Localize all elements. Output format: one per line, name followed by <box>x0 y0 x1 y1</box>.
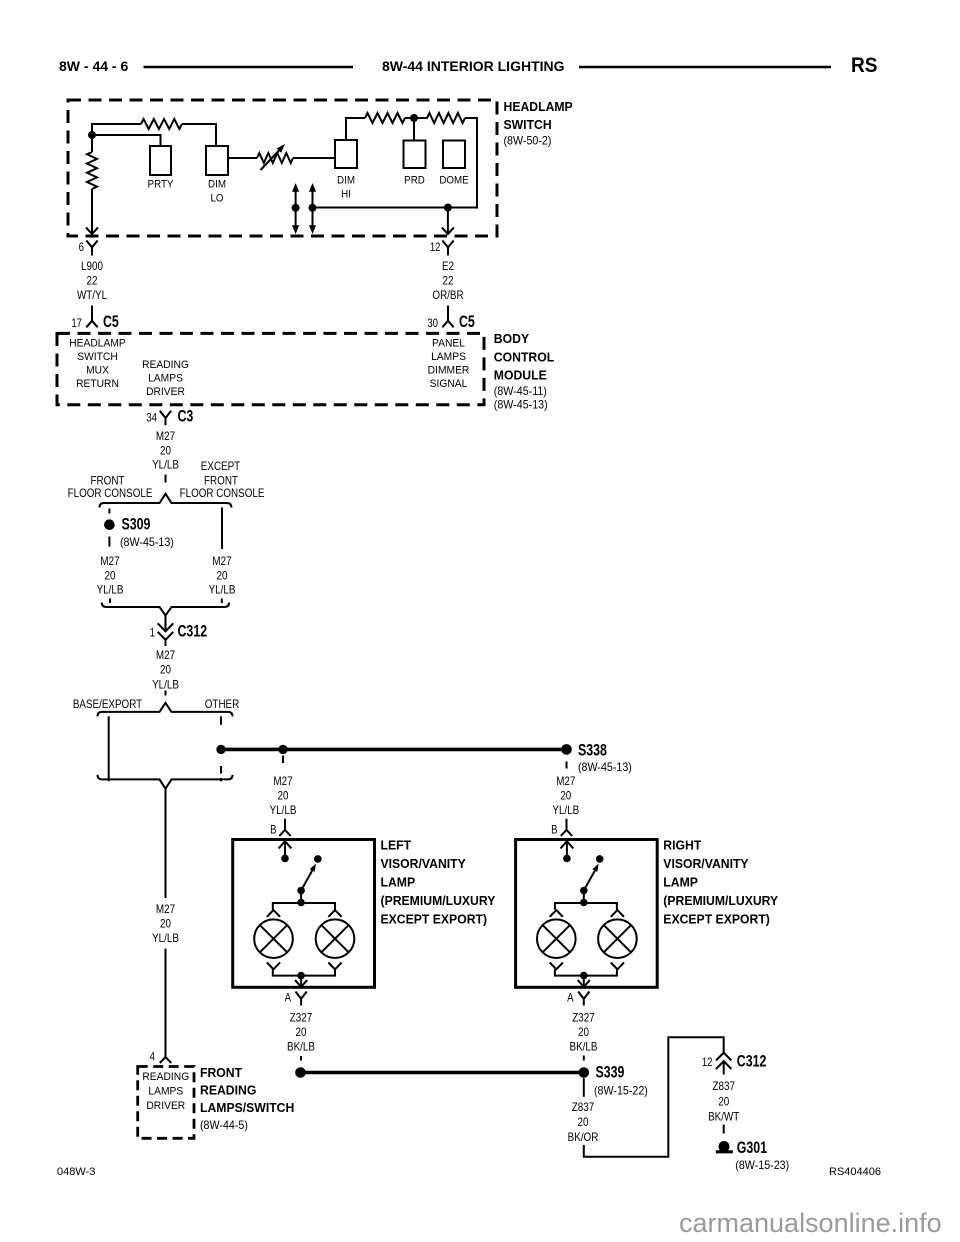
svg-text:C312: C312 <box>178 623 208 641</box>
svg-text:C5: C5 <box>459 313 475 331</box>
wire Z837 20 BK/OR <box>568 1101 599 1144</box>
left lamp switch arm arrow <box>301 864 316 891</box>
left lamp bulb 1 terminal chevron top <box>267 910 280 917</box>
svg-text:(8W-45-13): (8W-45-13) <box>120 537 174 549</box>
svg-text:YL/LB: YL/LB <box>552 804 579 817</box>
wire: R3 right side down to wiper rail <box>313 118 478 208</box>
wire: rheostat to DIM HI <box>293 157 335 159</box>
wire M27 left branch <box>97 555 124 596</box>
wire stub left to merge <box>109 599 111 604</box>
body control module dashed box <box>57 333 484 404</box>
svg-text:LAMP: LAMP <box>663 875 698 889</box>
left lamp switch pole node <box>281 855 289 863</box>
left lamp switch arm node <box>297 887 305 895</box>
svg-text:BK/WT: BK/WT <box>708 1111 740 1124</box>
node: left visor lamp tap <box>278 745 287 754</box>
ground G301 <box>716 1139 767 1157</box>
left lamp bulb 1 terminal chevron bottom <box>267 963 280 970</box>
svg-text:YL/LB: YL/LB <box>152 459 179 472</box>
reading lamps driver dashed box <box>138 1067 194 1139</box>
wire Z327 20 BK/LB right <box>570 1012 598 1054</box>
footer drawing number <box>829 1166 881 1178</box>
svg-text:(8W-45-13): (8W-45-13) <box>494 399 548 411</box>
svg-text:(8W-45-11): (8W-45-11) <box>494 386 547 398</box>
svg-text:SIGNAL: SIGNAL <box>430 379 468 390</box>
svg-text:20: 20 <box>560 790 571 803</box>
svg-text:M27: M27 <box>156 649 175 662</box>
svg-text:FRONT: FRONT <box>204 475 238 488</box>
svg-text:6: 6 <box>79 241 84 254</box>
left lamp bulb 1 <box>254 919 293 958</box>
svg-text:WT/YL: WT/YL <box>77 289 107 302</box>
svg-text:LO: LO <box>210 193 223 205</box>
connector pin 12 of headlamp switch <box>442 241 453 256</box>
svg-text:A: A <box>285 992 292 1005</box>
connector pin A right lamp <box>567 992 589 1006</box>
right lamp exit arrow to pin A <box>578 976 590 987</box>
svg-text:20: 20 <box>578 1026 589 1039</box>
svg-text:22: 22 <box>87 275 98 288</box>
page header left <box>59 58 128 74</box>
wire: feed to visor lamps <box>221 748 567 752</box>
left visor/vanity lamp box <box>233 840 375 988</box>
watermark <box>679 1208 942 1238</box>
svg-text:BK/LB: BK/LB <box>570 1041 598 1054</box>
BCM pin name: reading lamps driver <box>142 360 189 398</box>
right visor/vanity lamp box <box>516 840 658 988</box>
svg-text:C312: C312 <box>737 1053 767 1071</box>
left lamp switch fixed contact node <box>314 855 322 863</box>
connector pin B right lamp <box>551 819 572 837</box>
wire stub below S338 <box>566 762 568 769</box>
node: junction to pin 12 <box>444 204 452 212</box>
right lamp bulb 1 <box>537 919 576 958</box>
svg-text:4: 4 <box>150 1051 155 1064</box>
left lamp entry arrow from pin B <box>279 841 292 858</box>
S309 reference <box>120 537 174 549</box>
headlamp switch label <box>504 100 573 148</box>
right lamp bottom rail <box>555 969 617 975</box>
wire: junction down to PRD contact <box>413 118 415 141</box>
node on right wiper arrow <box>309 204 317 212</box>
left lamp rail node <box>297 891 305 907</box>
wire: junction down to vertical resistor R4 <box>91 135 93 152</box>
svg-text:S339: S339 <box>596 1064 625 1082</box>
wire stub to split <box>165 475 167 483</box>
branch split brace <box>100 494 232 508</box>
svg-text:(8W-44-5): (8W-44-5) <box>200 1120 248 1132</box>
branch merge brace <box>102 603 229 616</box>
wire stub below S309 <box>108 537 110 547</box>
svg-text:8W-44 INTERIOR LIGHTING: 8W-44 INTERIOR LIGHTING <box>382 58 565 74</box>
svg-text:12: 12 <box>430 241 441 254</box>
svg-text:HI: HI <box>341 189 351 201</box>
svg-text:20: 20 <box>160 445 171 458</box>
svg-text:17: 17 <box>71 317 82 330</box>
svg-text:M27: M27 <box>556 775 575 788</box>
svg-text:S309: S309 <box>122 516 151 534</box>
headlamp switch dashed box <box>68 100 497 236</box>
svg-text:RETURN: RETURN <box>76 379 119 390</box>
wire stub below tap <box>282 756 284 764</box>
svg-text:READING: READING <box>142 360 189 371</box>
left lamp bulb 2 terminal chevron top <box>328 910 341 917</box>
wire M27 on long vertical <box>152 903 179 945</box>
svg-text:20: 20 <box>160 918 171 931</box>
svg-text:YL/LB: YL/LB <box>152 932 179 945</box>
wire: junction to pin 12 arrow <box>442 208 454 235</box>
svg-text:20: 20 <box>296 1026 307 1039</box>
svg-text:(PREMIUM/LUXURY: (PREMIUM/LUXURY <box>663 894 778 908</box>
svg-text:30: 30 <box>427 317 438 330</box>
right lamp switch arm arrow <box>584 864 599 891</box>
S339 reference <box>594 1085 648 1097</box>
svg-text:YL/LB: YL/LB <box>209 584 236 597</box>
contact DIM LO <box>206 146 228 205</box>
svg-text:M27: M27 <box>156 430 175 443</box>
svg-text:YL/LB: YL/LB <box>97 584 124 597</box>
connector pin B left lamp <box>270 819 291 837</box>
wire Z837 20 BK/WT <box>708 1080 740 1123</box>
page header right <box>851 54 878 77</box>
svg-text:20: 20 <box>578 1116 589 1129</box>
node: junction above PRD <box>410 114 418 122</box>
wire: visor lamp ground bus <box>301 1071 584 1075</box>
svg-text:(8W-15-22): (8W-15-22) <box>594 1085 648 1097</box>
splice S309 <box>104 516 150 534</box>
svg-text:22: 22 <box>443 275 454 288</box>
page header title <box>382 58 565 74</box>
svg-text:A: A <box>567 992 574 1005</box>
svg-text:MUX: MUX <box>86 365 109 376</box>
S338 reference <box>578 762 632 774</box>
wire stub above ground <box>723 1125 725 1134</box>
header rule left <box>144 66 354 68</box>
right lamp entry arrow from pin B <box>561 841 574 858</box>
wire: DIM LO to rheostat <box>228 157 257 159</box>
branch label other <box>205 698 240 711</box>
svg-text:048W-3: 048W-3 <box>57 1166 95 1178</box>
G301 reference <box>735 1160 789 1172</box>
wire Z327 20 BK/LB left <box>287 1012 315 1054</box>
svg-text:HEADLAMP: HEADLAMP <box>504 100 573 114</box>
splice S338 <box>561 742 607 760</box>
wire: DIM HI up to resistor R2 <box>346 118 365 140</box>
svg-text:VISOR/VANITY: VISOR/VANITY <box>663 857 749 871</box>
svg-text:OR/BR: OR/BR <box>432 289 463 302</box>
connector C312 pin 12 <box>702 1053 767 1075</box>
svg-text:M27: M27 <box>212 555 231 568</box>
svg-text:LAMPS/SWITCH: LAMPS/SWITCH <box>200 1101 294 1115</box>
svg-text:VISOR/VANITY: VISOR/VANITY <box>381 857 467 871</box>
svg-text:L900: L900 <box>81 260 103 273</box>
left lamp bulb 2 terminal chevron bottom <box>328 963 341 970</box>
right lamp switch pole node <box>563 855 571 863</box>
connector pin 6 of headlamp switch <box>86 241 97 256</box>
svg-text:BASE/EXPORT: BASE/EXPORT <box>73 698 143 711</box>
wire M27 below C312 <box>152 649 179 691</box>
right lamp switch arm node <box>580 887 588 895</box>
svg-text:M27: M27 <box>273 775 292 788</box>
resistor: rheostat zigzag <box>257 153 293 163</box>
wire M27 right branch <box>209 555 236 596</box>
svg-text:BK/OR: BK/OR <box>568 1131 599 1144</box>
svg-text:B: B <box>551 824 557 837</box>
branch label front floor console <box>68 475 153 500</box>
svg-text:Z837: Z837 <box>572 1101 594 1114</box>
right lamp bulb 1 terminal chevron bottom <box>550 963 563 970</box>
wire E2 22 OR/BR <box>432 260 463 302</box>
svg-text:LAMPS: LAMPS <box>148 1086 183 1097</box>
svg-text:G301: G301 <box>737 1139 767 1157</box>
svg-text:DRIVER: DRIVER <box>146 1101 185 1112</box>
wire M27 to left lamp <box>270 775 297 817</box>
wire: R4 down to pin 6 arrow <box>86 189 98 234</box>
branch label except front floor console <box>180 460 265 500</box>
svg-text:Z837: Z837 <box>712 1080 734 1093</box>
right lamp switch fixed contact node <box>596 855 604 863</box>
right lamp bulb 2 terminal chevron top <box>611 910 624 917</box>
wire: R1 to DIM LO contact <box>182 124 216 146</box>
wire M27 20 YL/LB below C3 <box>152 430 179 471</box>
wire M27 to right lamp <box>552 775 579 817</box>
wire: junction up to resistor R1 <box>92 124 141 135</box>
svg-text:CONTROL: CONTROL <box>494 350 555 364</box>
right lamp bulb 2 <box>598 919 637 958</box>
svg-text:20: 20 <box>105 570 116 583</box>
svg-text:SWITCH: SWITCH <box>504 118 552 132</box>
resistor R3 <box>414 113 465 123</box>
wire right branch <box>221 508 223 550</box>
connector pin A left lamp <box>285 992 307 1006</box>
svg-text:RS: RS <box>851 54 878 77</box>
wire stub right to merge <box>221 599 223 604</box>
svg-text:FRONT: FRONT <box>91 475 125 488</box>
svg-text:(8W-15-23): (8W-15-23) <box>735 1160 789 1172</box>
node on other branch <box>216 745 225 754</box>
wire base/export branch <box>108 716 110 781</box>
connector pin 4 reading lamps driver <box>150 1051 172 1064</box>
svg-text:1: 1 <box>150 627 155 640</box>
svg-text:20: 20 <box>160 664 171 677</box>
svg-text:READING: READING <box>200 1083 257 1097</box>
right lamp bulb 2 terminal chevron bottom <box>611 963 624 970</box>
wire: S339 down stem <box>583 1078 585 1097</box>
wiper double arrow left <box>292 183 299 234</box>
contact DIM HI <box>335 140 357 201</box>
splice S339 <box>579 1064 625 1082</box>
node: left lamp return junction <box>295 1067 306 1078</box>
body control module label <box>494 332 555 412</box>
left lamp bottom rail <box>273 969 335 975</box>
svg-text:B: B <box>270 824 276 837</box>
svg-text:12: 12 <box>702 1056 713 1069</box>
svg-text:8W - 44 - 6: 8W - 44 - 6 <box>59 58 128 74</box>
svg-text:Z327: Z327 <box>572 1012 594 1025</box>
right lamp bulb 1 terminal chevron top <box>550 910 563 917</box>
wire stub left branch <box>108 509 110 514</box>
reading lamps driver pin name <box>142 1072 189 1112</box>
left visor/vanity lamp label <box>381 838 496 926</box>
second split brace <box>98 703 233 717</box>
wire: reading lamps driver feed (long vertical) <box>165 789 167 898</box>
wiper double arrow right <box>309 183 316 234</box>
rheostat wiper arrow <box>261 144 286 170</box>
wire: L900 stem to C5 <box>91 306 93 321</box>
resistor R1 (PRTY feed) <box>141 119 182 129</box>
footer sheet number <box>57 1166 95 1178</box>
connector C5 pin 30 <box>427 313 475 331</box>
wire: E2 stem to C5 <box>447 306 449 321</box>
svg-text:DIM: DIM <box>337 175 355 187</box>
svg-text:FRONT: FRONT <box>200 1066 242 1080</box>
wire stub right Z327 <box>583 1056 585 1061</box>
svg-text:MODULE: MODULE <box>494 368 547 382</box>
pin 6 label <box>79 241 84 254</box>
branch label base/export <box>73 698 143 711</box>
connector C3 pin 34 <box>146 408 193 426</box>
svg-text:OTHER: OTHER <box>205 698 240 711</box>
svg-text:BODY: BODY <box>494 332 530 346</box>
svg-text:Z327: Z327 <box>290 1012 312 1025</box>
second merge brace <box>98 775 233 789</box>
wire: ground run to C312 <box>584 1037 724 1157</box>
wire stub other branch <box>220 716 222 724</box>
svg-text:DRIVER: DRIVER <box>146 387 185 398</box>
svg-text:20: 20 <box>278 790 289 803</box>
wire: long vertical lower part <box>165 949 167 1058</box>
svg-text:DIM: DIM <box>208 179 226 191</box>
svg-text:DIMMER: DIMMER <box>428 365 470 376</box>
svg-text:M27: M27 <box>156 903 175 916</box>
front reading lamps/switch label <box>200 1066 294 1132</box>
svg-text:E2: E2 <box>442 260 454 273</box>
svg-text:PRTY: PRTY <box>148 179 174 191</box>
connector C5 pin 17 <box>71 313 119 331</box>
wire: R2 to junction <box>405 117 414 119</box>
svg-text:READING: READING <box>142 1072 189 1083</box>
svg-text:carmanualsonline.info: carmanualsonline.info <box>679 1208 942 1238</box>
wire stub to second split <box>165 691 167 696</box>
contact PRTY <box>148 146 174 191</box>
pin 12 label <box>430 241 441 254</box>
svg-text:YL/LB: YL/LB <box>270 804 297 817</box>
svg-text:M27: M27 <box>100 555 119 568</box>
node on left wiper arrow <box>292 204 300 212</box>
svg-text:34: 34 <box>146 412 157 425</box>
svg-text:BK/LB: BK/LB <box>287 1041 315 1054</box>
left lamp bulb 2 <box>316 919 355 958</box>
svg-text:SWITCH: SWITCH <box>77 352 118 363</box>
contact DOME <box>439 141 468 187</box>
left lamp bottom node <box>297 972 305 980</box>
header rule right <box>579 66 831 68</box>
svg-text:YL/LB: YL/LB <box>152 679 179 692</box>
wire: junction to PRTY contact <box>92 135 161 146</box>
wire stub left Z327 <box>300 1056 302 1061</box>
svg-text:PRD: PRD <box>404 175 425 187</box>
svg-text:LEFT: LEFT <box>381 838 412 852</box>
svg-text:EXCEPT EXPORT): EXCEPT EXPORT) <box>381 912 488 926</box>
wire L900 22 WT/YL <box>77 260 107 302</box>
svg-text:EXCEPT: EXCEPT <box>201 460 241 473</box>
left lamp exit arrow to pin A <box>295 976 307 987</box>
svg-text:20: 20 <box>718 1096 729 1109</box>
BCM pin name: panel lamps dimmer signal <box>428 338 470 390</box>
svg-text:C5: C5 <box>103 313 119 331</box>
svg-text:(8W-50-2): (8W-50-2) <box>504 135 552 147</box>
contact PRD <box>404 141 426 187</box>
svg-text:LAMPS: LAMPS <box>148 373 183 384</box>
wire stubs below other node <box>220 766 222 781</box>
svg-text:EXCEPT EXPORT): EXCEPT EXPORT) <box>663 912 770 926</box>
svg-text:S338: S338 <box>578 742 607 760</box>
svg-text:C3: C3 <box>178 408 194 426</box>
svg-text:LAMP: LAMP <box>381 875 416 889</box>
resistor R4 (vertical) <box>87 152 97 189</box>
svg-text:HEADLAMP: HEADLAMP <box>69 338 126 349</box>
node: headlamp switch internal junction <box>88 131 96 139</box>
svg-text:20: 20 <box>217 570 228 583</box>
svg-text:RIGHT: RIGHT <box>663 838 701 852</box>
svg-text:(8W-45-13): (8W-45-13) <box>578 762 632 774</box>
BCM pin name: headlamp switch mux return <box>69 338 126 390</box>
right lamp bottom node <box>580 972 588 980</box>
left lamp top rail <box>273 903 335 910</box>
svg-text:RS404406: RS404406 <box>829 1166 881 1178</box>
connector C312 pin 1 <box>150 615 207 646</box>
svg-text:(PREMIUM/LUXURY: (PREMIUM/LUXURY <box>381 894 496 908</box>
right lamp top rail <box>555 903 617 910</box>
resistor R2 <box>365 113 405 123</box>
svg-text:FLOOR CONSOLE: FLOOR CONSOLE <box>68 487 153 500</box>
svg-text:PANEL: PANEL <box>432 338 465 349</box>
svg-text:DOME: DOME <box>439 175 468 187</box>
svg-text:LAMPS: LAMPS <box>431 352 466 363</box>
svg-text:FLOOR CONSOLE: FLOOR CONSOLE <box>180 487 265 500</box>
right visor/vanity lamp label <box>663 838 778 926</box>
right lamp rail node <box>580 891 588 907</box>
